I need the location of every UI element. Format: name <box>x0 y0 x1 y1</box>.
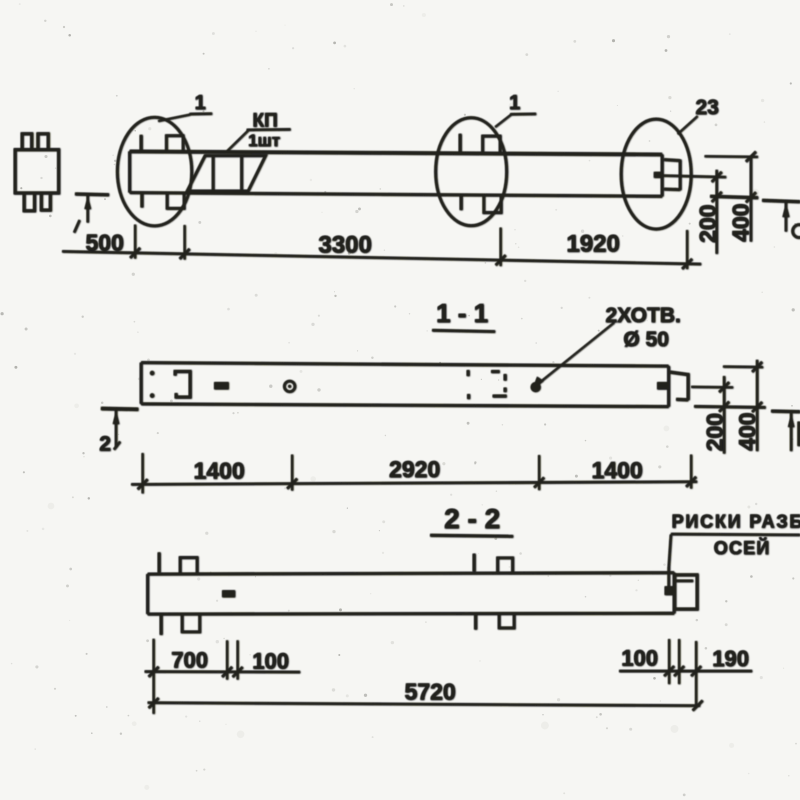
tick <box>682 259 692 269</box>
svg-text:200: 200 <box>695 204 721 242</box>
svg-text:23: 23 <box>695 96 718 119</box>
level mark right 1-1 <box>771 410 800 414</box>
section mark 1 underline (left) <box>189 112 212 115</box>
top extension 1-1 <box>723 365 763 368</box>
tick <box>496 255 506 265</box>
stud rect top (mid) <box>483 136 501 153</box>
bottom extension line right <box>710 196 758 197</box>
svg-text:ОСЕЙ: ОСЕЙ <box>714 537 771 558</box>
embedded plate blob <box>654 172 663 178</box>
mid extension 1-1 <box>691 386 733 389</box>
anchor dot upper <box>150 371 154 375</box>
dim 200 vertical 1-1 <box>723 376 725 454</box>
ticks right 2-2 <box>664 666 674 676</box>
svg-text:100: 100 <box>252 649 289 674</box>
end bracket top <box>664 160 680 161</box>
svg-text:1400: 1400 <box>591 457 642 483</box>
svg-text:Ø 50: Ø 50 <box>623 328 669 351</box>
hole filled dot <box>531 382 541 392</box>
tick <box>719 382 729 392</box>
end view stud top-right <box>38 134 48 150</box>
svg-text:700: 700 <box>171 648 208 673</box>
svg-text:1: 1 <box>509 92 520 114</box>
riska mark blob <box>665 586 674 595</box>
level mark right line <box>762 200 800 201</box>
beam top edge <box>130 151 663 154</box>
riski label underline <box>671 533 800 536</box>
end bracket right <box>679 160 682 191</box>
svg-text:5720: 5720 <box>404 679 455 705</box>
ticks left 2-2 <box>149 667 159 677</box>
beam 2-2 right end <box>673 573 676 614</box>
KP flag inner vertical 1 <box>212 156 215 191</box>
tick <box>746 152 756 162</box>
small plate rect 2-2 <box>222 590 235 597</box>
svg-text:2920: 2920 <box>389 456 440 482</box>
stud rect top left 2-2 <box>180 558 197 575</box>
lifting hole circle <box>284 381 295 392</box>
level mark left line <box>75 192 109 196</box>
level mark right arrow <box>785 203 787 232</box>
svg-text:3300: 3300 <box>318 232 371 259</box>
svg-text:190: 190 <box>712 646 749 671</box>
svg-text:2: 2 <box>99 433 111 456</box>
beam right end <box>661 154 664 196</box>
KP flag inner vertical 2 <box>240 156 243 191</box>
embedded plate blob 1-1 <box>657 382 669 389</box>
svg-text:1920: 1920 <box>566 231 619 258</box>
stud rect bottom mid 2-2 <box>499 613 514 628</box>
title 1-1 underline <box>432 330 495 331</box>
svg-text:200: 200 <box>702 413 728 451</box>
svg-text:РИСКИ РАЗБ: РИСКИ РАЗБ <box>672 512 800 532</box>
beam 2-2 bottom edge <box>148 612 675 616</box>
beam left end <box>128 151 131 192</box>
ticks 1-1 dim <box>138 479 148 489</box>
bottom extension 1-1 <box>694 406 766 407</box>
svg-text:2 - 2: 2 - 2 <box>444 503 500 534</box>
dashed tick upper <box>467 370 470 376</box>
end bracket 1-1 <box>670 372 688 375</box>
detail ellipse left <box>117 117 191 226</box>
svg-text:400: 400 <box>734 412 760 450</box>
detail ellipse right <box>621 119 691 229</box>
tick <box>752 402 762 412</box>
svg-text:1шт: 1шт <box>248 131 280 150</box>
elevation dimension line <box>62 251 701 264</box>
mid extension line <box>663 176 727 178</box>
end view stud bottom-left <box>24 193 34 211</box>
stud rect bottom (left) <box>167 193 184 208</box>
dim row left 2-2 <box>145 670 301 673</box>
extension line 500 left <box>134 225 136 259</box>
beam 2-2 left end <box>146 574 149 614</box>
stud mark top line (mid) <box>459 134 462 153</box>
stud line top mid 2-2 <box>473 554 476 572</box>
KP flag parallelogram <box>187 156 266 192</box>
end bracket bottom <box>664 188 680 191</box>
stud line bottom left 2-2 <box>160 615 163 635</box>
end view body <box>15 150 59 193</box>
detail ellipse middle <box>436 118 507 226</box>
stud line bottom mid 2-2 <box>474 613 477 630</box>
svg-text:1: 1 <box>194 92 205 114</box>
dim line 400 vertical <box>750 156 752 241</box>
dim line 200 vertical <box>715 170 717 254</box>
beam bottom edge <box>130 193 663 197</box>
stud line top left 2-2 <box>158 552 161 572</box>
dim line 5720 <box>148 703 701 706</box>
tick <box>719 402 729 412</box>
tick <box>180 249 190 259</box>
svg-text:400: 400 <box>728 203 754 241</box>
dim line 1-1 <box>131 482 697 485</box>
riska leader vertical <box>667 568 670 595</box>
stud rect top (left) <box>166 136 183 151</box>
tick <box>712 172 722 182</box>
extension line 3300 right <box>499 228 501 267</box>
top extension line right <box>704 155 757 158</box>
end view stud top-left <box>22 134 32 150</box>
tick <box>752 362 762 372</box>
level mark right partial glyph <box>793 225 800 238</box>
riski leader bend <box>669 534 671 568</box>
dim 400 vertical 1-1 <box>756 360 758 451</box>
end connector 2-2 <box>675 575 698 609</box>
beam 2-2 top edge <box>148 573 675 574</box>
dashed tick lower <box>467 394 470 399</box>
section mark 1 underline (mid) <box>510 113 536 116</box>
KP underline <box>247 128 291 131</box>
dashed bracket <box>491 370 500 373</box>
svg-text:2ХОТВ.: 2ХОТВ. <box>605 304 680 327</box>
beam 1-1 left end <box>140 363 143 404</box>
end view stud bottom-right <box>41 193 50 210</box>
svg-text:1 - 1: 1 - 1 <box>436 298 488 328</box>
beam 1-1 bottom edge <box>141 404 669 407</box>
svg-text:500: 500 <box>85 230 123 256</box>
extension line 1920 right <box>686 230 688 269</box>
dim row right 2-2 <box>619 670 752 672</box>
beam 1-1 top edge <box>141 363 669 367</box>
section mark 1 leader (mid) <box>495 115 511 128</box>
svg-text:КП: КП <box>252 111 277 132</box>
bracket mark <box>175 371 190 397</box>
level mark left arrow <box>86 196 88 223</box>
tick <box>130 248 140 258</box>
svg-text:1400: 1400 <box>193 458 244 484</box>
stud rect bottom (mid) <box>484 195 501 213</box>
extension line 500 right <box>183 225 185 260</box>
beam 1-1 right end <box>667 366 670 407</box>
stud rect bottom left 2-2 <box>182 614 200 632</box>
section mark 1 leader (left) <box>158 115 190 122</box>
level mark left tick <box>74 220 80 233</box>
ticks 5720 <box>149 698 159 708</box>
small plate rect <box>214 382 229 389</box>
title 2-2 underline <box>430 535 513 536</box>
stud mark top line (left) <box>140 135 143 151</box>
tick <box>712 192 722 202</box>
stud mark bottom line (mid) <box>460 195 463 210</box>
label 23 leader <box>678 116 698 134</box>
svg-text:100: 100 <box>621 646 658 671</box>
KP leader <box>227 131 249 152</box>
stud mark bottom line (left) <box>140 193 143 207</box>
stud rect top mid 2-2 <box>498 558 513 573</box>
extension lines left 2-2 <box>152 639 154 714</box>
extension lines 1-1 <box>141 453 143 493</box>
extension lines right 2-2 <box>668 639 670 684</box>
hole leader <box>537 323 614 385</box>
anchor dot lower <box>150 393 154 397</box>
tick <box>746 192 756 202</box>
level mark left 1-1 <box>101 407 138 411</box>
